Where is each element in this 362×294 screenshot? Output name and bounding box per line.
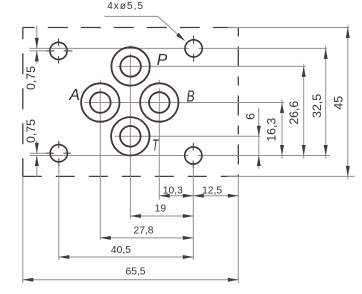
svg-text:0,75: 0,75 — [24, 66, 38, 90]
svg-text:19: 19 — [155, 204, 167, 215]
svg-text:0,75: 0,75 — [24, 119, 38, 143]
svg-text:12,5: 12,5 — [202, 185, 222, 196]
svg-text:65,5: 65,5 — [125, 267, 145, 278]
svg-text:A: A — [68, 87, 80, 104]
svg-text:26,6: 26,6 — [287, 101, 301, 125]
svg-text:B: B — [187, 88, 195, 105]
svg-text:4xø5,5: 4xø5,5 — [107, 1, 144, 12]
svg-text:32,5: 32,5 — [310, 94, 324, 118]
svg-text:6: 6 — [243, 113, 257, 120]
svg-text:27,8: 27,8 — [133, 226, 153, 237]
svg-text:45: 45 — [331, 96, 345, 110]
svg-text:10,3: 10,3 — [163, 185, 183, 196]
svg-text:40,5: 40,5 — [111, 245, 131, 256]
svg-text:P: P — [157, 52, 168, 69]
svg-text:T: T — [152, 137, 159, 154]
svg-text:16,3: 16,3 — [264, 118, 278, 142]
